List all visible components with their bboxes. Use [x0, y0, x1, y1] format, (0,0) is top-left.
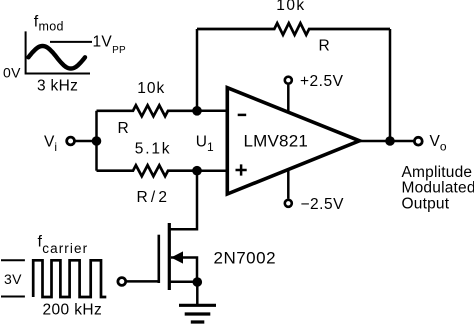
op-amp U1 LMV821: [227, 88, 359, 194]
input terminal Vi: [67, 137, 75, 145]
transistor Q1 2N7002 channel bar: [168, 223, 171, 290]
svg-text:R/2: R/2: [137, 189, 171, 206]
resistor R 10k (input): [97, 105, 198, 116]
fcarrier level reference bars: [1, 260, 25, 296]
junction source node: [193, 277, 203, 287]
wire gate lead: [127, 280, 159, 283]
svg-text:R: R: [118, 120, 129, 137]
svg-text:LMV821: LMV821: [244, 131, 309, 150]
transistor Q1 gate bar: [158, 235, 161, 283]
output terminal Vo: [414, 137, 422, 145]
op-amp minus sign: [238, 114, 247, 117]
wire inverting node to op-amp: [197, 110, 227, 113]
resistor R 10k (feedback): [197, 23, 390, 35]
carrier input terminal: [118, 278, 126, 286]
op-amp plus sign: [236, 164, 247, 175]
wire drain vertical: [169, 171, 197, 230]
junction non-inverting node: [192, 166, 202, 176]
transistor Q1 body arrow line: [171, 258, 197, 283]
fmod 1Vpp level line: [50, 41, 92, 43]
terminal +2.5V: [285, 77, 292, 84]
svg-text:10k: 10k: [276, 0, 305, 14]
transistor Q1 arrowhead: [171, 251, 183, 263]
fmod waveform axes: [26, 31, 90, 73]
wire op-amp output: [360, 140, 414, 143]
svg-text:10k: 10k: [137, 80, 165, 97]
wire feedback left vertical: [196, 29, 199, 111]
junction input node: [92, 136, 102, 146]
svg-text:R: R: [319, 38, 330, 55]
wire Vi to input node: [76, 140, 97, 143]
wire non-inverting node to op-amp: [197, 169, 227, 172]
svg-text:3V: 3V: [4, 271, 22, 287]
junction inverting node: [192, 106, 202, 116]
fmod sine wave: [28, 46, 85, 69]
wire feedback right vertical: [389, 29, 392, 141]
svg-text:200 kHz: 200 kHz: [43, 302, 103, 319]
svg-text:+2.5V: +2.5V: [300, 73, 344, 90]
wire source to ground: [196, 282, 199, 305]
transistor Q1 source stub: [169, 281, 197, 284]
wire positive supply: [287, 85, 290, 113]
resistor R/2 5.1k: [97, 165, 198, 176]
wire input node vertical: [95, 111, 98, 171]
junction output node: [385, 136, 395, 146]
svg-text:0V: 0V: [3, 65, 21, 81]
svg-text:−2.5V: −2.5V: [301, 196, 345, 213]
wire negative supply: [287, 168, 290, 198]
terminal -2.5V: [285, 200, 292, 207]
svg-text:5.1k: 5.1k: [135, 140, 172, 157]
fcarrier square wave: [33, 260, 106, 297]
svg-text:3 kHz: 3 kHz: [37, 78, 78, 95]
svg-text:2N7002: 2N7002: [214, 249, 277, 268]
ground: [179, 305, 216, 322]
